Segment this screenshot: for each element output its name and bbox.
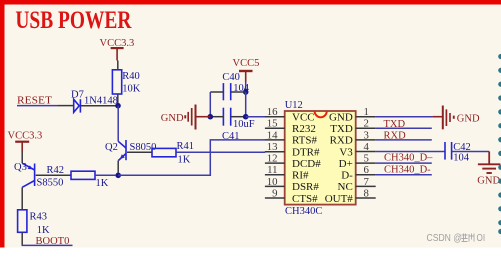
wire Q3 base to R42 [36,174,71,176]
wire R41 to pin 13 DTR# [176,151,265,153]
svg-text:VCC5: VCC5 [233,58,260,69]
net label CH340_D- (pin 6) [384,164,431,175]
resistor R42 [47,165,109,189]
net label CH340_D- (pin 5) [384,153,433,164]
wire node B to corner and up to pin 14 RTS# [118,140,265,175]
net label RXD [384,131,407,142]
pin 6 D- [341,164,376,181]
pin 4 V3 [339,141,375,158]
svg-text:C41: C41 [222,131,240,142]
junction node A [115,103,121,109]
wire Q2 emitter lead [117,161,119,173]
wire pin 5 [376,162,432,164]
power port VCC5 [233,58,260,82]
net label BOOT0 [36,236,70,247]
pin 11 RI# [265,164,309,181]
svg-text:4: 4 [364,141,370,153]
wire pin 1 to GND [376,116,433,118]
pin 8 OUT# [325,188,376,205]
svg-text:D+: D+ [339,158,353,170]
svg-text:9: 9 [272,188,277,200]
capacitor C41 [222,108,255,142]
svg-text:D-: D- [341,170,353,182]
svg-text:R42: R42 [47,165,65,176]
svg-text:CH340_D–: CH340_D– [384,153,433,164]
pin 14 RTS# [265,129,318,146]
svg-text:12: 12 [267,153,278,165]
wire C40 row [210,91,245,93]
svg-text:1N4148: 1N4148 [84,95,118,106]
svg-text:8: 8 [364,188,369,200]
wire node A down to Q2 collector [117,106,119,142]
svg-text:V3: V3 [339,146,353,158]
wire VCC3.3 to R40 [117,61,119,71]
svg-text:Q2: Q2 [105,142,118,153]
svg-text:RXD: RXD [330,135,353,147]
pin 15 R232 [265,118,316,135]
wire C42 to GND corner [452,151,490,153]
wire D7 cathode to node A [80,105,115,107]
pin 10 DSR# [265,176,319,193]
pin 16 VCC [265,106,315,123]
svg-text:R43: R43 [30,211,48,222]
wire pin 4 V3 to C42 [376,151,445,153]
pin 5 D+ [339,153,376,170]
pin 12 DCD# [265,153,321,170]
svg-text:104: 104 [453,152,470,163]
junction C41 right [243,114,249,120]
svg-text:6: 6 [364,164,370,176]
svg-text:DSR#: DSR# [292,181,319,193]
pin 9 CTS# [265,188,318,205]
svg-text:10uF: 10uF [233,119,255,130]
svg-text:CTS#: CTS# [292,193,318,205]
watermark CSDN [427,232,486,244]
svg-text:GND: GND [329,112,353,124]
sheet border left [0,0,5,248]
transistor Q2 S8050 [105,140,156,161]
power ground GND (left of C41) [161,105,211,130]
svg-text:1: 1 [364,106,369,118]
svg-text:USB POWER: USB POWER [15,5,131,34]
svg-text:1K: 1K [178,154,191,165]
diode D7 1N4148 [71,89,118,112]
svg-text:1K: 1K [96,178,109,189]
svg-text:DCD#: DCD# [292,158,321,170]
svg-text:5: 5 [364,153,369,165]
svg-text:CH340_D-: CH340_D- [384,164,431,175]
svg-text:10: 10 [267,176,278,188]
svg-text:2: 2 [364,118,369,130]
svg-text:10K: 10K [122,83,141,94]
svg-text:R41: R41 [177,141,195,152]
earth ground GND (bottom right) [477,152,500,187]
wire RXD [376,139,432,141]
svg-text:Q3: Q3 [14,162,27,173]
capacitor C40 [222,72,249,100]
svg-text:NC: NC [338,181,353,193]
wire TXD [376,127,432,129]
svg-text:GND: GND [457,113,480,124]
sheet border top [0,0,501,5]
svg-text:VCC: VCC [292,112,315,124]
capacitor C42 [445,142,471,164]
svg-text:VCC3.3: VCC3.3 [8,130,43,141]
power port VCC3.3 (left) [8,130,43,152]
IC U12 CH340C body [285,100,356,217]
pin 2 TXD [330,118,376,135]
svg-text:R232: R232 [292,123,316,135]
pin 13 DTR# [265,141,320,158]
svg-text:TXD: TXD [330,123,353,135]
pin 3 RXD [330,129,376,146]
svg-text:BOOT0: BOOT0 [36,236,70,247]
net label TXD [384,119,406,130]
wire R43 to BOOT0 [22,232,73,245]
power ground GND (pin 1) [433,106,480,130]
wire to pin 16 VCC [246,116,266,118]
svg-text:7: 7 [364,176,370,188]
wire right riser VCC5 down [245,92,247,117]
svg-text:RI#: RI# [292,170,309,182]
svg-text:RTS#: RTS# [292,135,318,147]
resistor R40 [112,70,140,95]
svg-text:1K: 1K [37,225,50,236]
svg-text:OI: OI [477,232,486,244]
wire RESET [17,105,74,107]
svg-text:OUT#: OUT# [325,193,354,205]
wire R40 to node A [117,94,119,104]
wire pin 6 [376,174,432,176]
svg-text:U12: U12 [285,100,303,111]
svg-text:13: 13 [267,141,278,153]
wire VCC5 to C40 row [245,82,247,92]
svg-text:D7: D7 [71,89,84,100]
junction C41 left [208,114,214,120]
svg-text:11: 11 [267,164,277,176]
title USB POWER [15,5,131,34]
power port VCC3.3 (top) [100,38,135,61]
svg-text:15: 15 [267,118,278,130]
wire Q2 base to R41 [127,151,152,153]
wire Q3 collector to R43 [21,187,23,210]
pin 7 NC [338,176,376,193]
transistor Q3 S8550 [14,162,63,189]
svg-text:GND: GND [161,113,184,124]
junction VCC5 / C40 [243,89,249,95]
wire VCC3.3 to Q3 emitter [21,152,23,163]
edge marker dots [498,54,501,234]
net label RESET [17,96,53,107]
svg-text:DTR#: DTR# [292,147,320,159]
svg-text:S8550: S8550 [37,178,64,189]
junction node B (Q2 emitter / R42) [115,173,121,179]
wire R42 to node B [95,174,116,176]
svg-text:16: 16 [267,106,278,118]
svg-text:CSDN @: CSDN @ [427,232,463,244]
svg-text:C40: C40 [222,72,240,83]
svg-text:CH340C: CH340C [285,206,322,217]
svg-text:3: 3 [364,129,369,141]
resistor R43 [18,210,50,236]
svg-text:GND: GND [477,176,500,187]
wire C41 row [210,116,245,118]
wire left riser C40/C41 [209,92,211,117]
svg-text:14: 14 [267,129,278,141]
pin 1 GND [329,106,376,123]
resistor R41 [152,141,194,165]
svg-text:R40: R40 [122,71,140,82]
